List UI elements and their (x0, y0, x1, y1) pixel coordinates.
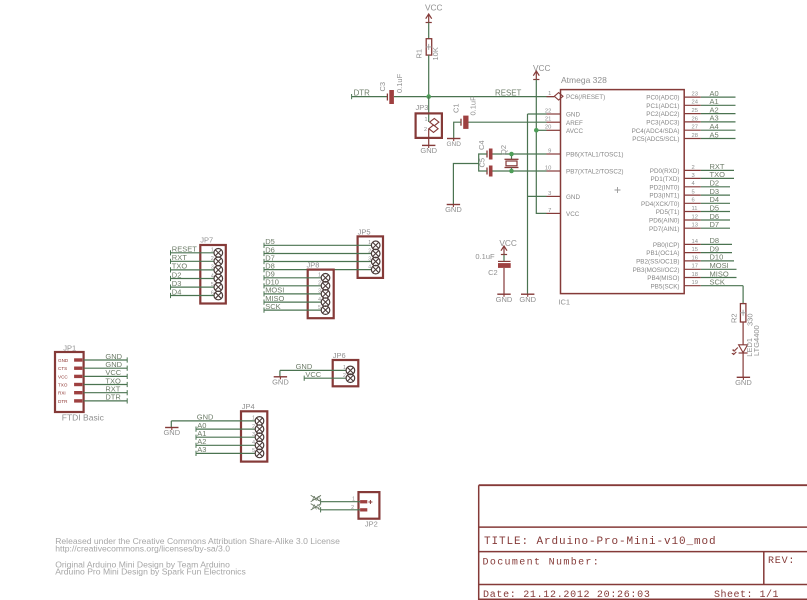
svg-text:Arduino Pro Mini Design by Spa: Arduino Pro Mini Design by Spark Fun Ele… (55, 567, 246, 577)
pin 21 AREF left (547, 121, 561, 123)
svg-text:3: 3 (548, 191, 551, 197)
pin 23 PC0(ADC0) net A0 (684, 96, 701, 98)
svg-text:2: 2 (351, 505, 354, 511)
svg-text:12: 12 (692, 214, 698, 220)
pin 3 PD1(TXD) net TXO (684, 177, 701, 179)
svg-text:RESET: RESET (495, 88, 521, 97)
svg-text:PD4(XCK/T0): PD4(XCK/T0) (641, 201, 680, 208)
svg-text:PD2(INT0): PD2(INT0) (649, 184, 679, 191)
title block frame (479, 485, 807, 599)
pin 4 JP8 net MISO (263, 300, 265, 305)
svg-text:C3: C3 (378, 82, 387, 92)
pin 2 JP2 net A7 (320, 507, 322, 512)
wire caps left join (479, 154, 487, 171)
resistor R1 10K (426, 39, 432, 55)
svg-text:18: 18 (692, 272, 698, 278)
svg-text:CTS: CTS (58, 366, 67, 371)
wire VCC bus to pin 7 (536, 80, 546, 214)
pin 5 JP7 net D3 (170, 285, 172, 290)
svg-text:SCK: SCK (265, 302, 280, 311)
svg-text:7: 7 (548, 208, 551, 214)
pin 24 PC1(ADC1) net A1 (684, 104, 701, 106)
pin 1 JP5 net D5 (263, 243, 265, 248)
node DTR wire end (351, 94, 353, 99)
svg-text:D4: D4 (172, 287, 182, 296)
svg-text:22: 22 (545, 108, 551, 114)
capacitor C1 0.1uF (460, 119, 462, 126)
svg-text:2: 2 (692, 165, 695, 171)
pin 3 JP7 net TXO (170, 267, 172, 272)
pin 1 JP4 net GND (171, 420, 255, 422)
pin 2 PD0(RXD) net RXT (684, 169, 701, 171)
pin 2 JP5 net D6 (263, 251, 265, 256)
pin 26 PC3(ADC3) net A3 (684, 121, 701, 123)
svg-text:PB7(XTAL2/TOSC2): PB7(XTAL2/TOSC2) (566, 169, 624, 176)
wire C4 to XTAL1 (493, 153, 547, 155)
svg-text:PC5(ADC5/SCL): PC5(ADC5/SCL) (632, 136, 679, 143)
svg-text:GND: GND (566, 112, 580, 119)
svg-text:17: 17 (692, 264, 698, 270)
svg-text:PB0(ICP): PB0(ICP) (653, 242, 680, 249)
wire DTR to C3 (352, 96, 388, 98)
svg-text:2: 2 (424, 127, 427, 133)
svg-text:GND: GND (272, 377, 289, 386)
svg-text:JP5: JP5 (358, 227, 371, 236)
node AVCC junction (534, 128, 539, 133)
capacitor C4 (486, 151, 488, 158)
pin 10 PB7(XTAL2/TOSC2) left (547, 170, 561, 172)
svg-text:14: 14 (692, 239, 699, 245)
pin 2 JP8 net D10 (263, 283, 265, 288)
svg-text:PD6(AIN0): PD6(AIN0) (649, 218, 679, 225)
svg-text:IC1: IC1 (558, 298, 570, 307)
pin 16 PB2(SS/OC1B) net D10 (684, 260, 701, 262)
svg-text:15: 15 (692, 247, 698, 253)
resistor R2 330 (740, 304, 746, 322)
svg-text:PC1(ADC1): PC1(ADC1) (646, 103, 679, 110)
wire C1 to AREF (469, 121, 547, 123)
LED LED1 LTG4400 (739, 345, 748, 353)
svg-text:PD1(TXD): PD1(TXD) (650, 176, 679, 183)
pin 15 PB1(OC1A) net D9 (684, 252, 701, 254)
wire junction to JP3 (428, 97, 430, 122)
svg-text:20: 20 (545, 125, 551, 131)
svg-text:SCK: SCK (710, 278, 725, 287)
svg-text:LTG4400: LTG4400 (752, 325, 761, 356)
pin 6 JP7 net D4 (170, 293, 172, 298)
svg-text:19: 19 (692, 280, 698, 286)
svg-text:AREF: AREF (566, 120, 583, 127)
pin 5 JP1 RXI net RXT (74, 391, 82, 394)
connector JP2 (359, 492, 380, 519)
svg-text:26: 26 (692, 116, 698, 122)
svg-text:PB3(MOSI/OC2): PB3(MOSI/OC2) (633, 267, 680, 274)
wire C1 to ground (454, 122, 461, 138)
pin 2 pad (429, 125, 438, 132)
svg-text:1: 1 (352, 497, 355, 503)
pin 4 JP7 net D2 (170, 276, 172, 281)
svg-text:VCC: VCC (425, 2, 443, 12)
pin 5 JP8 net SCK (263, 308, 265, 313)
svg-text:VCC: VCC (305, 370, 321, 379)
svg-text:GND: GND (566, 194, 580, 201)
ground JP6 (274, 376, 287, 378)
pin 14 PB0(ICP) net D8 (684, 243, 701, 245)
svg-text:PB1(OC1A): PB1(OC1A) (646, 250, 679, 257)
pin 27 PC4(ADC4/SDA) net A4 (684, 129, 701, 131)
node R1 origin cross (426, 44, 432, 50)
pin 19 PB5(SCK) net SCK (684, 285, 701, 287)
pin 1 JP1 GND net GND (74, 358, 82, 361)
capacitor C2 0.1uF (498, 260, 511, 262)
svg-text:VCC: VCC (566, 211, 580, 218)
svg-text:AVCC: AVCC (566, 128, 583, 135)
svg-text:PB5(SCK): PB5(SCK) (650, 283, 679, 290)
ground below C2 (497, 293, 510, 295)
svg-text:GND: GND (519, 295, 536, 304)
wire R2 to LED1 (742, 322, 744, 345)
wire VCC to C2 (503, 255, 505, 262)
wire GND bus (527, 114, 529, 294)
ground below C1 (447, 138, 460, 140)
svg-text:GND: GND (420, 146, 437, 155)
svg-text:21: 21 (545, 117, 551, 123)
svg-text:23: 23 (692, 92, 698, 98)
pin 18 PB4(MISO) net MISO (684, 277, 701, 279)
svg-text:PC3(ADC3): PC3(ADC3) (646, 120, 679, 127)
svg-text:RXI: RXI (58, 391, 66, 396)
svg-text:6: 6 (692, 198, 695, 204)
pin 2 JP1 CTS net GND (74, 367, 82, 370)
pin 22 GND left (547, 113, 561, 115)
svg-text:GND: GND (496, 295, 513, 304)
svg-text:3: 3 (692, 173, 695, 179)
svg-text:GND: GND (163, 428, 180, 437)
svg-text:PD5(T1): PD5(T1) (656, 209, 680, 216)
svg-text:GND: GND (58, 358, 69, 363)
ground GND bus (521, 293, 534, 295)
pin 6 PD4(XCK/T0) net D4 (684, 202, 701, 204)
ground below LED1 (737, 376, 750, 378)
wire GND pin8 (528, 195, 547, 197)
svg-text:PD3(INT1): PD3(INT1) (649, 193, 679, 200)
pin 1 JP6 net GND (280, 369, 346, 371)
svg-text:JP3: JP3 (416, 103, 429, 112)
wire C3 to IC pin1 RESET (394, 96, 554, 98)
wire LED1 to ground (742, 353, 744, 377)
svg-text:24: 24 (692, 100, 699, 106)
wire JP4 GND stub (170, 421, 172, 428)
svg-text:C4: C4 (477, 140, 486, 150)
pin 17 PB3(MOSI/OC2) net MOSI (684, 268, 701, 270)
svg-text:http://creativecommons.org/lic: http://creativecommons.org/licenses/by-s… (55, 544, 230, 554)
svg-text:10: 10 (545, 165, 551, 171)
svg-text:Document Number:: Document Number: (483, 556, 601, 568)
pin 1 JP2 net A6 (320, 499, 322, 504)
pin 2 JP4 net A0 (195, 427, 197, 432)
svg-text:1: 1 (548, 91, 551, 97)
svg-text:TITLE: Arduino-Pro-Mini-v10_mo: TITLE: Arduino-Pro-Mini-v10_mod (484, 536, 717, 548)
svg-text:PB6(XTAL1/TOSC1): PB6(XTAL1/TOSC1) (566, 152, 624, 159)
pin 7 VCC left (547, 212, 561, 214)
pin 3 JP4 net A1 (195, 435, 197, 440)
svg-text:1: 1 (424, 117, 427, 123)
svg-text:16: 16 (692, 255, 698, 261)
svg-text:PC6(/RESET): PC6(/RESET) (566, 94, 605, 101)
pin 6 JP1 DTR net DTR (74, 399, 82, 402)
pin 12 PD6(AIN0) net D6 (684, 219, 701, 221)
svg-text:PC2(ADC2): PC2(ADC2) (646, 111, 679, 118)
svg-text:GND: GND (445, 205, 462, 214)
svg-text:FTDI Basic: FTDI Basic (62, 413, 105, 423)
svg-text:DTR: DTR (105, 393, 121, 402)
pin 5 JP4 net A3 (195, 451, 197, 456)
pin 3 JP8 net MOSI (263, 291, 265, 296)
pin 4 PD2(INT0) net D2 (684, 186, 701, 188)
pin 25 PC2(ADC2) net A2 (684, 113, 701, 115)
pin 3 GND left (547, 195, 561, 197)
pin 1 pad (430, 118, 439, 125)
svg-text:PD7(AIN1): PD7(AIN1) (649, 226, 679, 233)
ground crystal caps (447, 204, 460, 206)
svg-text:JP6: JP6 (333, 351, 346, 360)
node XTAL2 junction (509, 169, 514, 174)
svg-text:JP2: JP2 (365, 519, 378, 528)
svg-text:PB4(MISO): PB4(MISO) (647, 275, 679, 282)
svg-text:10K: 10K (431, 47, 440, 60)
wire C2 to ground (503, 268, 505, 294)
svg-text:C1: C1 (452, 103, 461, 113)
svg-text:5: 5 (692, 190, 695, 196)
svg-text:0.1uF: 0.1uF (395, 73, 404, 93)
wire JP3 to ground (428, 129, 430, 146)
wire VCC to R1 (428, 23, 430, 39)
crystal Q2 (511, 154, 513, 159)
svg-text:GND: GND (446, 141, 461, 148)
svg-text:Atmega 328: Atmega 328 (561, 75, 607, 85)
pin 28 PC5(ADC5/SCL) net A5 (684, 138, 701, 140)
svg-text:VCC: VCC (499, 238, 517, 248)
svg-text:PC4(ADC4/SDA): PC4(ADC4/SDA) (632, 128, 680, 135)
node XTAL1 junction (509, 152, 514, 157)
svg-text:TXO: TXO (58, 383, 68, 388)
pin 3 JP1 VCC net VCC (74, 375, 82, 378)
pin 4 JP5 net D8 (263, 267, 265, 272)
svg-text:R2: R2 (730, 313, 739, 323)
svg-text:28: 28 (692, 133, 698, 139)
pin 9 PB6(XTAL1/TOSC1) left (547, 153, 561, 155)
svg-text:D7: D7 (710, 220, 720, 229)
svg-text:REV:: REV: (768, 556, 795, 567)
node R2 origin cross (740, 310, 746, 316)
svg-text:PB2(SS/OC1B): PB2(SS/OC1B) (636, 259, 679, 266)
pin 3 JP5 net D7 (263, 259, 265, 264)
svg-text:25: 25 (692, 108, 698, 114)
svg-text:C2: C2 (488, 268, 498, 277)
pin 1 JP8 net D9 (263, 275, 265, 280)
svg-text:JP7: JP7 (200, 236, 213, 245)
svg-text:PC0(ADC0): PC0(ADC0) (646, 95, 679, 102)
capacitor C3 0.1uF (386, 94, 388, 101)
svg-text:Sheet: 1/1: Sheet: 1/1 (714, 589, 779, 600)
pin 4 JP4 net A2 (195, 443, 197, 448)
pin 2 JP6 net VCC (303, 376, 305, 381)
pin 4 JP1 TXO net TXO (74, 383, 82, 386)
node junction R1/RESET/JP3 (426, 94, 431, 99)
svg-text:13: 13 (692, 223, 698, 229)
svg-text:JP4: JP4 (242, 402, 255, 411)
svg-text:VCC: VCC (58, 374, 68, 379)
wire R1 to junction (428, 55, 430, 97)
wire AVCC (536, 129, 546, 131)
svg-text:PD0(RXD): PD0(RXD) (650, 168, 680, 175)
svg-text:A5: A5 (710, 130, 719, 139)
ground JP4 (165, 427, 178, 429)
svg-text:DTR: DTR (58, 399, 68, 404)
svg-text:R1: R1 (415, 49, 424, 59)
ground below JP3 (422, 144, 435, 146)
pin 2 JP7 net RXT (170, 259, 172, 264)
wire C5 to XTAL2 (493, 170, 547, 172)
svg-text:Date: 21.12.2012 20:26:03: Date: 21.12.2012 20:26:03 (483, 590, 651, 600)
svg-text:A3: A3 (197, 445, 206, 454)
svg-text:330: 330 (746, 313, 755, 326)
wire GND pin22 (528, 113, 547, 115)
svg-text:GND: GND (735, 378, 752, 387)
pin 13 PD7(AIN1) net D7 (684, 227, 701, 229)
capacitor C5 (486, 168, 488, 175)
pin 1 PC6(/RESET) (547, 96, 555, 98)
svg-text:0.1uF: 0.1uF (475, 252, 495, 261)
svg-text:27: 27 (692, 125, 698, 131)
pin 1 JP7 net RESET (170, 250, 172, 255)
svg-text:0.1uF: 0.1uF (469, 96, 478, 116)
svg-text:11: 11 (692, 206, 698, 212)
wire join to ground (453, 164, 478, 205)
svg-text:9: 9 (548, 148, 551, 154)
pin 11 PD5(T1) net D5 (684, 211, 701, 213)
wire SCK to R2 (742, 286, 744, 304)
svg-text:JP8: JP8 (307, 261, 320, 270)
svg-text:Q2: Q2 (499, 145, 508, 155)
wire JP6 to ground (279, 370, 281, 376)
pin 20 AVCC left (547, 129, 561, 131)
pin 5 PD3(INT1) net D3 (684, 194, 701, 196)
node IC1 origin cross (615, 187, 621, 193)
